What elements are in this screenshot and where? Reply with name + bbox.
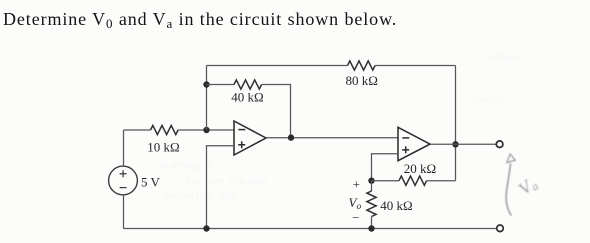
node junction dot R5 bottom — [368, 225, 374, 231]
wire U2 noninverting input to node a — [372, 154, 399, 181]
node junction dot at 40k branch — [203, 81, 209, 87]
node a junction dot — [368, 178, 374, 184]
voltage source V1 — [109, 166, 138, 195]
wire node a to 20k — [372, 180, 400, 182]
svg-text:ір ваѕігі: ір ваѕігі — [470, 94, 503, 105]
wire U2 output to terminal — [430, 143, 496, 145]
wire U1 output to U2 inverting input — [266, 137, 398, 139]
wire left vertical top — [123, 130, 125, 166]
svg-text:80 kΩ: 80 kΩ — [345, 73, 377, 88]
wire 40k feedback left lead — [207, 84, 235, 86]
svg-text:+: + — [353, 176, 360, 191]
node junction dot at U2 output — [452, 141, 458, 147]
annotation arrow Va — [506, 154, 515, 216]
svg-text:−: − — [352, 210, 359, 225]
resistor R4 20 kOhm — [399, 176, 427, 185]
wire R5 to bottom rail — [371, 217, 373, 229]
svg-text:5 V: 5 V — [141, 175, 161, 190]
node junction dot bottom rail — [203, 225, 209, 231]
wire node a to R5 — [371, 181, 373, 191]
wire 40k feedback right lead — [262, 85, 291, 138]
terminal top — [496, 141, 503, 148]
svg-text:lt tv саѕе ˋдог гоѕе: lt tv саѕе ˋдог гоѕе — [185, 175, 267, 187]
svg-text:io p²rlug, iv: io p²rlug, iv — [160, 159, 212, 171]
resistor R1 10 kOhm — [151, 125, 179, 134]
wire left vertical bottom — [123, 195, 125, 229]
op-amp U2 — [398, 127, 430, 160]
svg-text:20 kΩ: 20 kΩ — [404, 161, 436, 176]
svg-text:40 kΩ: 40 kΩ — [231, 90, 263, 105]
wire 20k to output node — [427, 180, 456, 182]
svg-text:віѕігіа ііаіг ѕігіі: віѕігіа ііаіг ѕігіі — [165, 190, 235, 202]
wire source to R1 — [124, 129, 151, 131]
wire U1 noninverting input to ground rail — [207, 146, 235, 229]
wire top rail right — [375, 65, 455, 67]
wire top rail left — [207, 65, 348, 67]
wire bottom rail — [124, 228, 497, 230]
node junction dot at U1 inverting input — [203, 127, 209, 133]
resistor R2 40 kOhm feedback — [234, 80, 262, 89]
svg-text:40 kΩ: 40 kΩ — [380, 198, 412, 213]
resistor R3 80 kOhm — [348, 61, 376, 70]
svg-text:10 kΩ: 10 kΩ — [147, 140, 179, 155]
wire R1 to op-amp U1 — [178, 129, 234, 131]
resistor R5 40 kOhm vertical — [367, 191, 376, 217]
op-amp U1 — [234, 121, 266, 155]
wire vertical input node — [206, 66, 208, 131]
svg-text:Determine V0 and Va in the cir: Determine V0 and Va in the circuit shown… — [3, 9, 397, 31]
terminal bottom — [497, 225, 504, 232]
wire right vertical 80k to 20k — [455, 66, 457, 181]
node junction dot at U1 output — [288, 134, 294, 140]
svg-text:it Тіраіѕ: it Тіраіѕ — [488, 52, 521, 63]
